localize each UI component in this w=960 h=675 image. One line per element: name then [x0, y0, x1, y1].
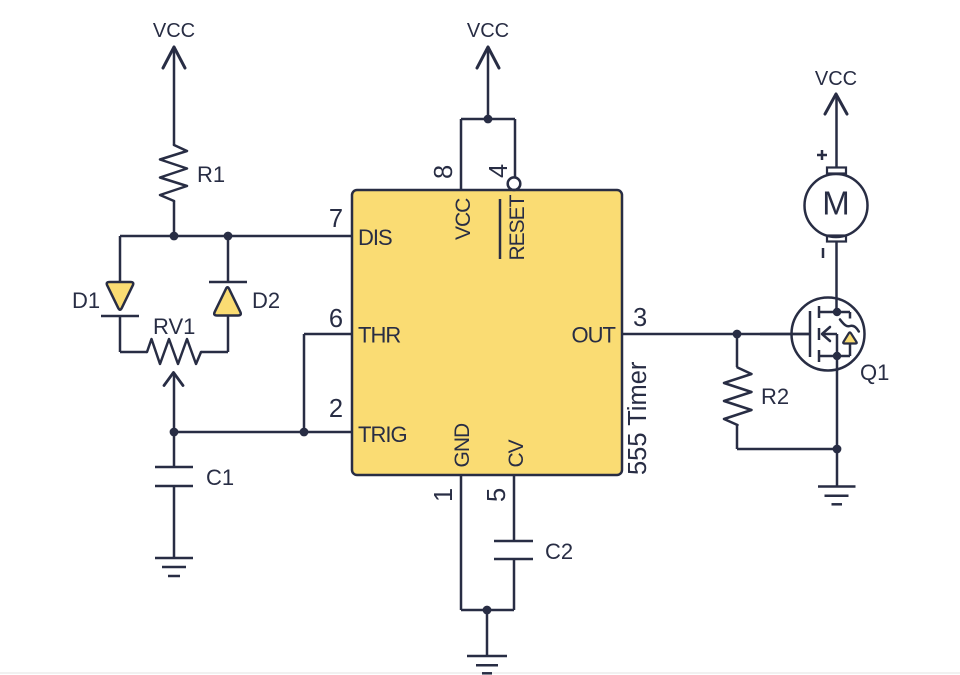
svg-text:3: 3: [633, 304, 647, 332]
svg-text:6: 6: [329, 305, 343, 333]
svg-text:R1: R1: [197, 162, 225, 187]
svg-text:GND: GND: [451, 423, 474, 468]
svg-text:C2: C2: [545, 539, 573, 564]
svg-text:VCC: VCC: [153, 20, 195, 42]
svg-text:DIS: DIS: [358, 225, 392, 250]
svg-text:RV1: RV1: [153, 314, 195, 339]
svg-text:5: 5: [483, 488, 511, 502]
svg-text:CV: CV: [505, 439, 528, 467]
svg-text:D1: D1: [72, 288, 100, 313]
svg-text:M: M: [822, 185, 850, 222]
svg-text:555 Timer: 555 Timer: [624, 361, 652, 475]
svg-text:THR: THR: [358, 323, 400, 348]
svg-text:VCC: VCC: [467, 20, 509, 42]
svg-text:7: 7: [329, 205, 343, 233]
svg-text:OUT: OUT: [572, 323, 616, 348]
svg-text:TRIG: TRIG: [358, 422, 407, 447]
svg-text:RESET: RESET: [506, 194, 529, 260]
svg-text:4: 4: [485, 164, 513, 178]
svg-text:VCC: VCC: [452, 198, 475, 240]
svg-text:D2: D2: [252, 288, 280, 313]
svg-text:R2: R2: [761, 384, 789, 409]
svg-text:8: 8: [430, 165, 458, 179]
svg-text:VCC: VCC: [815, 68, 857, 90]
svg-text:C1: C1: [206, 465, 234, 490]
svg-text:Q1: Q1: [860, 360, 889, 385]
svg-text:2: 2: [329, 395, 343, 423]
svg-text:1: 1: [430, 488, 458, 502]
